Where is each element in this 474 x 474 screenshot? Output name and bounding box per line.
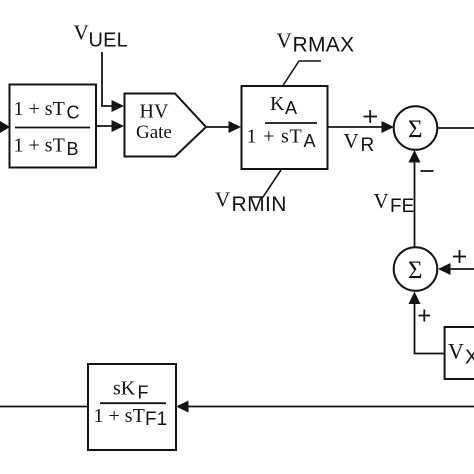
wire VUEL down into HV gate: [102, 52, 124, 112]
svg-text:1 + sT: 1 + sT: [247, 126, 303, 148]
svg-text:V: V: [215, 188, 230, 212]
HV Gate pentagon: [125, 94, 207, 157]
svg-text:V: V: [344, 129, 359, 153]
wire KA block to summer S1: [328, 121, 395, 133]
svg-text:Σ: Σ: [408, 257, 423, 284]
wire sKF output to left edge: [0, 406, 88, 408]
summer S1: [394, 106, 438, 150]
svg-text:K: K: [270, 93, 285, 115]
plus sign at S2 right input: [453, 250, 466, 263]
wire from VX block up into S2: [409, 292, 445, 354]
plus sign at S2 bottom input: [419, 310, 431, 322]
svg-text:V: V: [74, 21, 89, 45]
summer S2: [394, 247, 438, 291]
svg-text:UEL: UEL: [89, 30, 129, 52]
wire S1 output to right edge: [437, 127, 474, 129]
minus sign at S1 bottom input: [421, 170, 434, 172]
svg-text:V: V: [374, 189, 389, 213]
svg-text:F: F: [138, 383, 149, 403]
svg-text:sK: sK: [113, 378, 136, 400]
svg-text:FE: FE: [390, 196, 414, 217]
svg-text:R: R: [361, 135, 375, 156]
label VUEL: [74, 21, 129, 52]
leader line VRMAX to block corner: [283, 61, 321, 86]
label VFE: [374, 189, 415, 217]
svg-text:C: C: [67, 103, 80, 123]
svg-text:Σ: Σ: [408, 116, 423, 143]
wire HV gate to KA block: [206, 121, 241, 133]
label VRMAX: [277, 29, 355, 57]
svg-text:RMAX: RMAX: [293, 34, 355, 57]
svg-text:HV: HV: [140, 101, 169, 123]
wire lead-lag block to HV gate: [96, 120, 124, 132]
leader line VRMIN to block corner: [249, 170, 281, 197]
block sKF/(1+sTF1): [88, 364, 176, 450]
svg-text:V: V: [277, 29, 292, 53]
svg-text:1 + sT: 1 + sT: [14, 98, 65, 120]
block VX (cut off at right edge): [445, 327, 474, 379]
block lead-lag (1+sTC)/(1+sTB): [10, 85, 97, 168]
block KA/(1+sTA): [242, 86, 328, 169]
label VRMIN: [215, 188, 287, 217]
svg-text:A: A: [304, 131, 316, 151]
wire feedback from right edge to sKF block: [176, 401, 474, 413]
svg-text:1 + sT: 1 + sT: [94, 405, 145, 427]
arrowhead into lead-lag block: [0, 121, 10, 133]
label VR: [344, 129, 375, 156]
svg-text:RMIN: RMIN: [232, 193, 287, 216]
svg-text:F1: F1: [145, 409, 167, 430]
plus sign at S1 left input: [364, 110, 378, 123]
svg-text:V: V: [448, 339, 464, 364]
svg-text:1 + sT: 1 + sT: [14, 135, 65, 157]
svg-text:X: X: [465, 347, 474, 369]
wire VFE from S2 up to S1: [409, 150, 421, 248]
svg-text:Gate: Gate: [136, 122, 172, 143]
svg-text:A: A: [285, 98, 297, 118]
wire from right edge into S2: [438, 263, 474, 275]
svg-text:B: B: [67, 139, 79, 159]
wire input from left edge: [0, 126, 2, 128]
